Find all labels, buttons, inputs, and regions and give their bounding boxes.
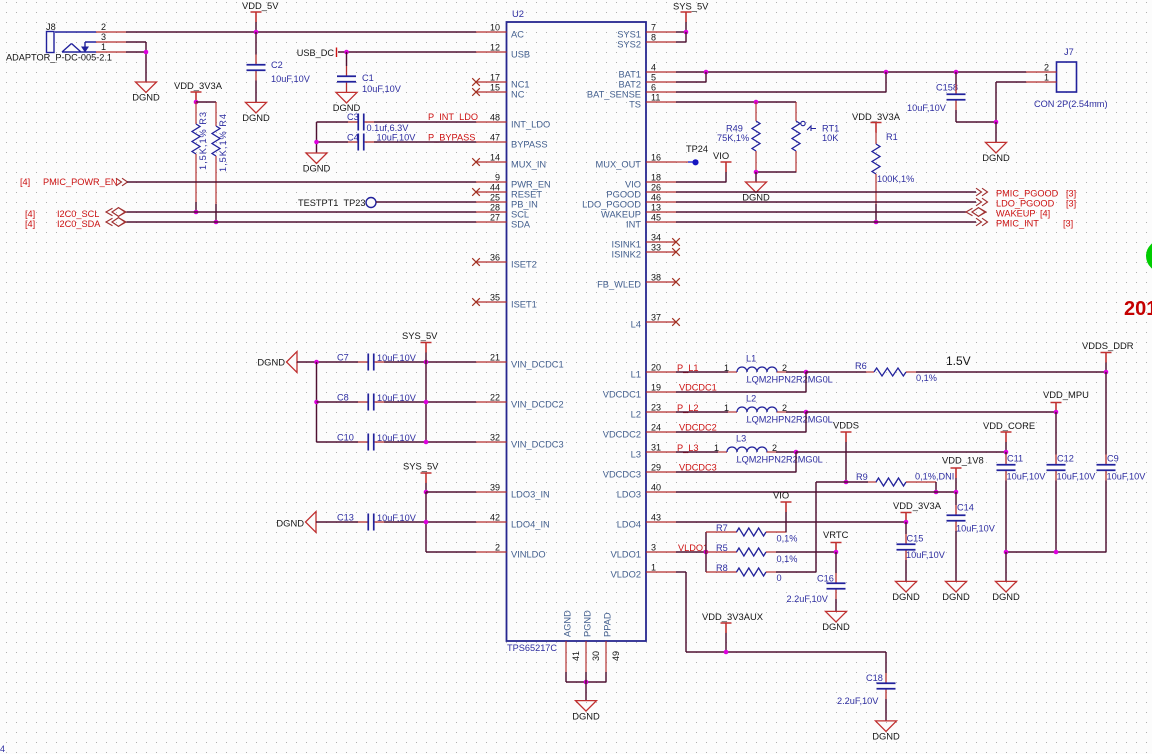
svg-text:33: 33 — [651, 243, 661, 253]
svg-text:10uF,10V: 10uF,10V — [906, 550, 946, 560]
svg-text:J7: J7 — [1064, 47, 1074, 57]
svg-text:10uF,10V: 10uF,10V — [1057, 472, 1097, 482]
svg-text:10K: 10K — [822, 133, 839, 143]
svg-text:29: 29 — [651, 463, 661, 473]
capacitor C2 — [255, 55, 257, 65]
svg-text:VINLDO: VINLDO — [511, 549, 546, 559]
wire PGOOD — [676, 191, 976, 193]
svg-text:2: 2 — [782, 403, 787, 413]
junction R9/LDO3 — [934, 490, 939, 495]
svg-text:2.2uF,10V: 2.2uF,10V — [837, 696, 879, 706]
junction BAT_SENSE tap — [884, 70, 889, 75]
pin 17 NC1 (U2 left) — [476, 81, 507, 83]
svg-text:VIN_DCDC2: VIN_DCDC2 — [511, 399, 564, 409]
svg-text:C9: C9 — [1107, 454, 1119, 464]
wire VDD_3V3A to R4 top — [196, 101, 216, 103]
ground DGND (C14) — [946, 581, 967, 592]
svg-text:VDD_3V3A: VDD_3V3A — [174, 80, 223, 91]
svg-text:LDO3_IN: LDO3_IN — [511, 489, 550, 499]
svg-text:4: 4 — [0, 744, 5, 754]
svg-text:0: 0 — [777, 573, 782, 583]
wire C4 left to ground — [317, 141, 349, 143]
svg-text:DGND: DGND — [742, 192, 770, 203]
svg-text:12: 12 — [490, 43, 500, 53]
svg-text:42: 42 — [490, 513, 500, 523]
wire C9 to rail — [1105, 481, 1107, 553]
svg-text:39: 39 — [490, 483, 500, 493]
svg-text:LQM2HPN2R2MG0L: LQM2HPN2R2MG0L — [747, 375, 833, 385]
pin 16 MUX_OUT (U2 right) — [646, 161, 676, 163]
svg-text:VRTC: VRTC — [823, 529, 849, 540]
junction VDD_5V on AC wire — [254, 30, 259, 35]
svg-text:R1: R1 — [886, 132, 898, 142]
svg-text:SYS_5V: SYS_5V — [673, 1, 709, 12]
svg-text:19: 19 — [651, 383, 661, 393]
junction bottom ground — [584, 680, 589, 685]
resistor R3 — [195, 102, 197, 124]
svg-text:USB: USB — [511, 49, 530, 59]
junction C13 right — [424, 520, 429, 525]
junction SYS_5V — [684, 30, 689, 35]
svg-text:LDO_PGOOD: LDO_PGOOD — [996, 199, 1055, 209]
junction LDO3_IN — [424, 490, 429, 495]
resistor R1 — [872, 144, 880, 174]
junction R49/RT1 ground — [754, 170, 759, 175]
connector J8 ADAPTOR_P-DC-005-2.1 — [47, 32, 55, 53]
pin 44 RESET (U2 left) — [476, 191, 507, 193]
svg-text:PPAD: PPAD — [603, 612, 613, 637]
wire TP23 to U2 PB_IN — [376, 201, 476, 203]
wire L1 out to R6 — [806, 371, 866, 373]
wire I2C0_SDA to U2 SDA — [127, 221, 477, 223]
svg-text:37: 37 — [651, 313, 661, 323]
svg-text:VDD_3V3A: VDD_3V3A — [893, 500, 942, 511]
off-page PMIC_INT — [976, 218, 988, 226]
junction VRTC/C16 — [834, 550, 839, 555]
svg-text:RESET: RESET — [511, 189, 542, 199]
svg-text:P_INT_LDO: P_INT_LDO — [428, 112, 478, 122]
junction SYS_5V/C7 — [424, 360, 429, 365]
ground DGND (C15) — [896, 581, 917, 592]
wire R8 column to R9 — [815, 482, 817, 572]
wire BAT_SENSE — [676, 91, 886, 93]
wire J8 pin1 to ground — [126, 51, 146, 53]
svg-text:[4]: [4] — [20, 177, 30, 187]
svg-text:11: 11 — [651, 93, 660, 103]
svg-text:VIN_DCDC3: VIN_DCDC3 — [511, 439, 564, 449]
svg-text:VIN_DCDC1: VIN_DCDC1 — [511, 359, 564, 369]
ground DGND (C16) — [826, 611, 847, 622]
wire VINLDO — [426, 551, 476, 553]
svg-text:VDD_CORE: VDD_CORE — [983, 420, 1035, 431]
wire C2 to ground — [255, 81, 257, 103]
wire to DGND (R49) — [755, 172, 757, 182]
svg-text:C15: C15 — [907, 534, 924, 544]
wire BAT2 jog — [676, 81, 706, 83]
svg-text:21: 21 — [490, 353, 500, 363]
ground DGND (C2) — [246, 102, 267, 113]
svg-text:L1: L1 — [631, 369, 641, 379]
pin 31 L3 (U2 right) — [646, 451, 676, 453]
svg-text:C11: C11 — [1007, 454, 1023, 464]
svg-text:DGND: DGND — [992, 591, 1020, 602]
svg-text:PMIC_POWR_EN: PMIC_POWR_EN — [43, 177, 118, 187]
svg-text:4: 4 — [651, 63, 656, 73]
svg-text:L4: L4 — [631, 319, 641, 329]
svg-text:INT: INT — [626, 219, 641, 229]
wire C3 left to ground leg — [317, 121, 349, 123]
wire cap ground rail — [1006, 551, 1106, 553]
svg-text:FB_WLED: FB_WLED — [597, 279, 641, 289]
svg-text:VLDO1: VLDO1 — [611, 549, 642, 559]
svg-text:VDD_MPU: VDD_MPU — [1043, 389, 1089, 400]
svg-text:[3]: [3] — [1063, 219, 1073, 229]
wire R9 to LDO3 rail — [935, 482, 937, 492]
wire INT — [676, 221, 976, 223]
pin 22 VIN_DCDC2 (U2 left) — [476, 401, 507, 403]
junction VDD_CORE/C11 — [1004, 450, 1009, 455]
junction VDDS_DDR/C9 — [1104, 370, 1109, 375]
ground DGND (C18) — [876, 721, 897, 732]
wire C12 to rail — [1055, 481, 1057, 553]
svg-text:VDD_3V3A: VDD_3V3A — [852, 111, 901, 122]
svg-text:7: 7 — [651, 23, 656, 33]
svg-text:75K,1%: 75K,1% — [717, 133, 749, 143]
junction VDDS/R9 — [844, 480, 849, 485]
svg-text:R49: R49 — [726, 124, 743, 134]
wire left cap column — [316, 362, 318, 442]
junction C7 left — [314, 360, 319, 365]
wire LDO_PGOOD — [676, 201, 976, 203]
svg-text:BAT1: BAT1 — [618, 69, 641, 79]
svg-text:AC: AC — [511, 29, 524, 39]
ground DGND (J8) — [136, 82, 157, 93]
svg-text:PMIC_INT: PMIC_INT — [996, 219, 1039, 229]
svg-text:LDO_PGOOD: LDO_PGOOD — [582, 199, 641, 209]
svg-text:40: 40 — [651, 483, 661, 493]
svg-text:[3]: [3] — [1066, 199, 1076, 209]
wire WAKEUP — [676, 211, 966, 213]
pin 29 VDCDC3 (U2 right) — [646, 471, 676, 473]
svg-text:2: 2 — [1044, 63, 1049, 73]
svg-text:TP24: TP24 — [686, 144, 708, 154]
junction divider node — [704, 550, 709, 555]
svg-text:24: 24 — [651, 423, 661, 433]
wire SYS5V column — [425, 362, 427, 442]
wire rail to DGND — [1005, 552, 1007, 581]
svg-text:L3: L3 — [736, 434, 746, 444]
svg-text:MUX_OUT: MUX_OUT — [596, 159, 642, 169]
wire C14 to ground — [955, 531, 957, 581]
pin 28 SCL (U2 left) — [476, 211, 507, 213]
svg-text:R9: R9 — [856, 472, 868, 482]
svg-text:SYS_5V: SYS_5V — [403, 461, 439, 472]
svg-text:8: 8 — [651, 33, 656, 43]
svg-text:TS: TS — [629, 99, 641, 109]
ground DGND (J7/C158) — [986, 142, 1007, 153]
junction VDD_3V3A node — [194, 100, 199, 105]
svg-text:2: 2 — [772, 443, 777, 453]
svg-text:ISINK1: ISINK1 — [612, 239, 641, 249]
svg-text:13: 13 — [651, 203, 661, 213]
svg-text:38: 38 — [651, 273, 661, 283]
svg-text:15: 15 — [490, 83, 500, 93]
svg-text:ADAPTOR_P-DC-005-2.1: ADAPTOR_P-DC-005-2.1 — [6, 53, 112, 63]
svg-text:AGND: AGND — [563, 610, 573, 637]
pin 18 VIO (U2 right) — [646, 181, 676, 183]
thermistor RT1 — [795, 102, 797, 121]
pin 6 BAT_SENSE (U2 right) — [646, 91, 676, 93]
svg-text:VDD_5V: VDD_5V — [242, 0, 279, 11]
svg-text:45: 45 — [651, 213, 661, 223]
svg-text:2: 2 — [782, 363, 787, 373]
pin 33 ISINK2 (U2 right) — [646, 251, 676, 253]
pin 8 SYS2 (U2 right) — [646, 41, 676, 43]
svg-text:L3: L3 — [631, 449, 641, 459]
svg-text:0,1%: 0,1% — [777, 554, 798, 564]
pin 43 LDO4 (U2 right) — [646, 521, 676, 523]
svg-text:49: 49 — [611, 651, 621, 661]
pin 45 INT (U2 right) — [646, 221, 676, 223]
pin 26 PGOOD (U2 right) — [646, 191, 676, 193]
svg-text:DGND: DGND — [892, 591, 920, 602]
pin 34 ISINK1 (U2 right) — [646, 241, 676, 243]
wire BAT1 to J7 — [676, 71, 1026, 73]
pin 2 VINLDO (U2 left) — [476, 551, 507, 553]
svg-text:10uF,10V: 10uF,10V — [271, 74, 311, 84]
svg-text:DGND: DGND — [242, 112, 270, 123]
svg-text:20: 20 — [651, 363, 661, 373]
wire C3 to U2 INT_LDO — [374, 121, 476, 123]
capacitor C1 — [346, 66, 348, 76]
wire DGND to C13 — [316, 521, 358, 523]
svg-text:47: 47 — [490, 133, 500, 143]
pin 21 VIN_DCDC1 (U2 left) — [476, 361, 507, 363]
svg-text:44: 44 — [490, 183, 500, 193]
wire SYS2 jog — [676, 41, 686, 43]
svg-text:I2C0_SCL: I2C0_SCL — [57, 209, 99, 219]
resistor R4 — [215, 112, 217, 126]
pin 42 LDO4_IN (U2 left) — [476, 521, 507, 523]
pin 39 LDO3_IN (U2 left) — [476, 491, 507, 493]
wire LDO rail down — [425, 492, 427, 552]
svg-text:26: 26 — [651, 183, 661, 193]
wire PGND down — [585, 672, 587, 701]
svg-text:RT1: RT1 — [822, 124, 839, 134]
wire LDO4 rail — [676, 521, 906, 523]
svg-text:LQM2HPN2R2MG0L: LQM2HPN2R2MG0L — [737, 455, 823, 465]
svg-text:L2: L2 — [631, 409, 641, 419]
pin 48 INT_LDO (U2 left) — [476, 121, 507, 123]
wire R6 to VDDS_DDR — [916, 371, 1106, 373]
svg-text:22: 22 — [490, 393, 500, 403]
svg-text:P_BYPASS: P_BYPASS — [428, 133, 475, 143]
svg-text:14: 14 — [490, 153, 500, 163]
svg-text:30: 30 — [591, 651, 601, 661]
wire C16 to ground — [835, 599, 837, 611]
svg-text:5: 5 — [651, 73, 656, 83]
junction L2 output — [804, 410, 809, 415]
svg-text:1: 1 — [651, 563, 656, 573]
svg-text:MUX_IN: MUX_IN — [511, 159, 546, 169]
pin 13 WAKEUP (U2 right) — [646, 211, 676, 213]
svg-text:SYS_5V: SYS_5V — [402, 330, 438, 341]
svg-text:3: 3 — [651, 543, 656, 553]
svg-text:ISINK2: ISINK2 — [612, 249, 641, 259]
wire LDO3_IN — [426, 491, 476, 493]
svg-text:DGND: DGND — [572, 710, 600, 721]
svg-text:1,5K,1% R3: 1,5K,1% R3 — [198, 111, 208, 170]
svg-text:1: 1 — [1044, 73, 1049, 83]
svg-text:C7: C7 — [337, 353, 349, 363]
pin 9 PWR_EN (U2 left) — [476, 181, 507, 183]
svg-text:PWR_EN: PWR_EN — [511, 179, 551, 189]
svg-text:L1: L1 — [746, 354, 756, 364]
junction C10 right — [424, 440, 429, 445]
svg-text:100K,1%: 100K,1% — [877, 174, 914, 184]
svg-text:BAT_SENSE: BAT_SENSE — [587, 89, 641, 99]
resistor R49 — [755, 102, 757, 121]
wire C1 to ground — [346, 91, 348, 93]
pin 40 LDO3 (U2 right) — [646, 491, 676, 493]
pin 10 AC (U2 left) — [476, 31, 507, 33]
svg-text:SCL: SCL — [511, 209, 529, 219]
junction R4 / SDA — [214, 220, 219, 225]
pin 37 L4 (U2 right) — [646, 321, 676, 323]
pin 5 BAT2 (U2 right) — [646, 81, 676, 83]
svg-text:9: 9 — [495, 173, 500, 183]
svg-text:DGND: DGND — [822, 621, 850, 632]
off-page LDO_PGOOD — [976, 198, 988, 206]
svg-text:25: 25 — [490, 193, 500, 203]
svg-text:VDDS_DDR: VDDS_DDR — [1082, 340, 1134, 351]
svg-text:TP23: TP23 — [344, 198, 366, 208]
svg-text:2: 2 — [495, 543, 500, 553]
svg-text:C12: C12 — [1057, 454, 1074, 464]
svg-text:1,5K,1% R4: 1,5K,1% R4 — [218, 113, 228, 172]
svg-text:CON 2P(2.54mm): CON 2P(2.54mm) — [1034, 99, 1108, 109]
pin 49 PPAD (U2 bottom) — [605, 641, 607, 672]
svg-text:28: 28 — [490, 203, 500, 213]
pin 41 AGND (U2 bottom) — [565, 641, 567, 672]
svg-text:C18: C18 — [866, 673, 883, 683]
junction R3 / SCL — [194, 210, 199, 215]
junction C12 rail — [1054, 550, 1059, 555]
svg-text:1: 1 — [101, 42, 106, 52]
svg-text:C3: C3 — [347, 112, 359, 122]
svg-text:C14: C14 — [957, 503, 974, 513]
pin 4 BAT1 (U2 right) — [646, 71, 676, 73]
svg-text:34: 34 — [651, 233, 661, 243]
wire VDCDC1 feedback — [805, 372, 807, 392]
svg-text:INT_LDO: INT_LDO — [511, 119, 550, 129]
wire VDCDC2 feedback — [805, 412, 807, 432]
svg-text:SDA: SDA — [511, 219, 531, 229]
junction VDD_MPU/C12 — [1054, 410, 1059, 415]
wire VDD_5V to C2 — [255, 32, 257, 55]
svg-text:1.5V: 1.5V — [946, 354, 971, 368]
svg-text:WAKEUP: WAKEUP — [601, 209, 641, 219]
junction VDD_3V3AUX — [724, 650, 729, 655]
svg-text:J8: J8 — [46, 22, 56, 32]
wire C15 to ground — [905, 560, 907, 581]
svg-text:DGND: DGND — [942, 591, 970, 602]
svg-text:10uF,10V: 10uF,10V — [1107, 472, 1147, 482]
ground DGND (C1) — [336, 92, 357, 103]
pin 38 FB_WLED (U2 right) — [646, 281, 676, 283]
svg-text:VDCDC3: VDCDC3 — [679, 463, 717, 473]
pin 3 VLDO1 (U2 right) — [646, 551, 676, 553]
svg-text:48: 48 — [490, 113, 500, 123]
svg-text:43: 43 — [651, 513, 661, 523]
wire VDCDC3 feedback — [795, 452, 797, 472]
svg-text:NC: NC — [511, 89, 525, 99]
svg-text:[4]: [4] — [25, 209, 35, 219]
svg-text:R6: R6 — [855, 361, 867, 371]
junction C158/J7 ground — [994, 120, 999, 125]
wire to DGND (J7) — [995, 122, 997, 142]
wire VLDO2 run — [676, 571, 686, 573]
svg-text:TPS65217C: TPS65217C — [507, 643, 557, 653]
svg-text:WAKEUP: WAKEUP — [996, 209, 1035, 219]
svg-text:VDD_3V3AUX: VDD_3V3AUX — [702, 611, 764, 622]
pin 12 USB (U2 left) — [476, 51, 507, 53]
svg-text:SYS1: SYS1 — [617, 29, 641, 39]
svg-text:0,1%,DNI: 0,1%,DNI — [915, 472, 954, 482]
pin 30 PGND (U2 bottom) — [585, 641, 587, 672]
svg-text:ISET1: ISET1 — [511, 299, 537, 309]
off-page WAKEUP — [966, 208, 986, 217]
pin 15 NC (U2 left) — [476, 91, 507, 93]
pin 36 ISET2 (U2 left) — [476, 261, 507, 263]
pin 25 PB_IN (U2 left) — [476, 201, 507, 203]
svg-text:U2: U2 — [512, 8, 524, 19]
junction C11 rail — [1004, 550, 1009, 555]
svg-text:C1: C1 — [362, 73, 374, 83]
svg-text:DGND: DGND — [257, 357, 285, 368]
svg-text:VDCDC1: VDCDC1 — [603, 389, 641, 399]
junction C8 right — [424, 400, 429, 405]
svg-text:LQM2HPN2R2MG0L: LQM2HPN2R2MG0L — [747, 415, 833, 425]
pin 7 SYS1 (U2 right) — [646, 31, 676, 33]
svg-text:VIO: VIO — [713, 150, 729, 161]
wire L2 out to VDD_MPU — [806, 411, 1056, 413]
ground DGND (C11/C12/C9) — [996, 581, 1017, 592]
svg-text:PB_IN: PB_IN — [511, 199, 538, 209]
svg-text:10uF,10V: 10uF,10V — [907, 103, 947, 113]
svg-text:41: 41 — [571, 651, 581, 661]
svg-text:VDDS: VDDS — [833, 420, 859, 431]
junction R1/INT — [874, 220, 879, 225]
svg-text:VDD_1V8: VDD_1V8 — [942, 455, 984, 466]
pin 11 TS (U2 right) — [646, 101, 676, 103]
wire C158 to ground — [955, 110, 957, 122]
svg-text:2.2uF,10V: 2.2uF,10V — [787, 594, 829, 604]
svg-text:DGND: DGND — [982, 152, 1010, 163]
svg-text:17: 17 — [490, 73, 500, 83]
off-page PMIC_PGOOD — [976, 188, 988, 196]
svg-text:32: 32 — [490, 433, 500, 443]
pin 27 SDA (U2 left) — [476, 221, 507, 223]
wire bottom pins join — [565, 672, 567, 682]
wire junction to C1 — [346, 52, 348, 66]
svg-text:BAT2: BAT2 — [618, 79, 641, 89]
wire C10 to U2 VIN_DCDC3 — [384, 441, 476, 443]
junction TS/R49 — [754, 100, 759, 105]
svg-text:3: 3 — [101, 32, 106, 42]
pin 20 L1 (U2 right) — [646, 371, 676, 373]
svg-text:[3]: [3] — [1066, 189, 1076, 199]
